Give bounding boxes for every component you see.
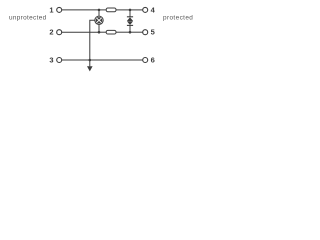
svg-text:6: 6 (151, 56, 155, 65)
wire: resistor (bottom) to node D (116, 31, 130, 33)
terminal 4 label (151, 5, 156, 14)
node D junction dot (129, 31, 132, 34)
gas discharge tube F1 (3-electrode arrester) (95, 16, 103, 24)
terminal 6 (143, 58, 148, 63)
resistor (bottom line) (106, 30, 116, 34)
node B junction dot (129, 9, 132, 12)
wire: node E to terminal 6 (90, 59, 143, 61)
wire: arrester center electrode to earth rail (90, 20, 95, 66)
terminal 1 label (49, 5, 53, 14)
wire: node D to terminal 5 (130, 31, 143, 33)
terminal 4 (143, 7, 148, 12)
svg-text:2: 2 (49, 28, 53, 37)
resistor (top line) (106, 8, 116, 12)
wire: terminal 3 to node E (62, 59, 90, 61)
wire: node A to resistor (top) (99, 9, 106, 11)
wire: node B to terminal 4 (130, 9, 143, 11)
wire: terminal 2 to node C (62, 31, 99, 33)
wire: arrester bottom electrode down to node C (98, 25, 100, 33)
terminal 5 label (151, 28, 155, 37)
net label: unprotected side (9, 15, 47, 22)
wire: node C to resistor (bottom) (99, 31, 106, 33)
node A junction dot (98, 9, 101, 12)
terminal 6 label (151, 56, 155, 65)
svg-text:1: 1 (49, 5, 53, 14)
terminal 2 (57, 30, 62, 35)
node C junction dot (98, 31, 101, 34)
wire: terminal 1 to node A (62, 9, 99, 11)
wire: node B down to suppressor diode (129, 10, 131, 17)
terminal 1 (57, 7, 62, 12)
svg-text:protected: protected (163, 15, 193, 22)
terminal 2 label (49, 28, 53, 37)
wire: node A down to arrester top electrode (98, 10, 100, 16)
terminal 3 label (49, 56, 53, 65)
svg-text:3: 3 (49, 56, 53, 65)
svg-text:5: 5 (151, 28, 155, 37)
node E junction dot (89, 59, 92, 62)
suppressor diode (bidirectional TVS) (127, 17, 133, 26)
net label: protected side (163, 15, 193, 22)
ground (earth arrow) (87, 66, 93, 71)
terminal 5 (143, 30, 148, 35)
wire: resistor (top) to node B (116, 9, 130, 11)
svg-text:unprotected: unprotected (9, 15, 47, 22)
wire: suppressor diode down to node D (129, 25, 131, 32)
terminal 3 (57, 58, 62, 63)
